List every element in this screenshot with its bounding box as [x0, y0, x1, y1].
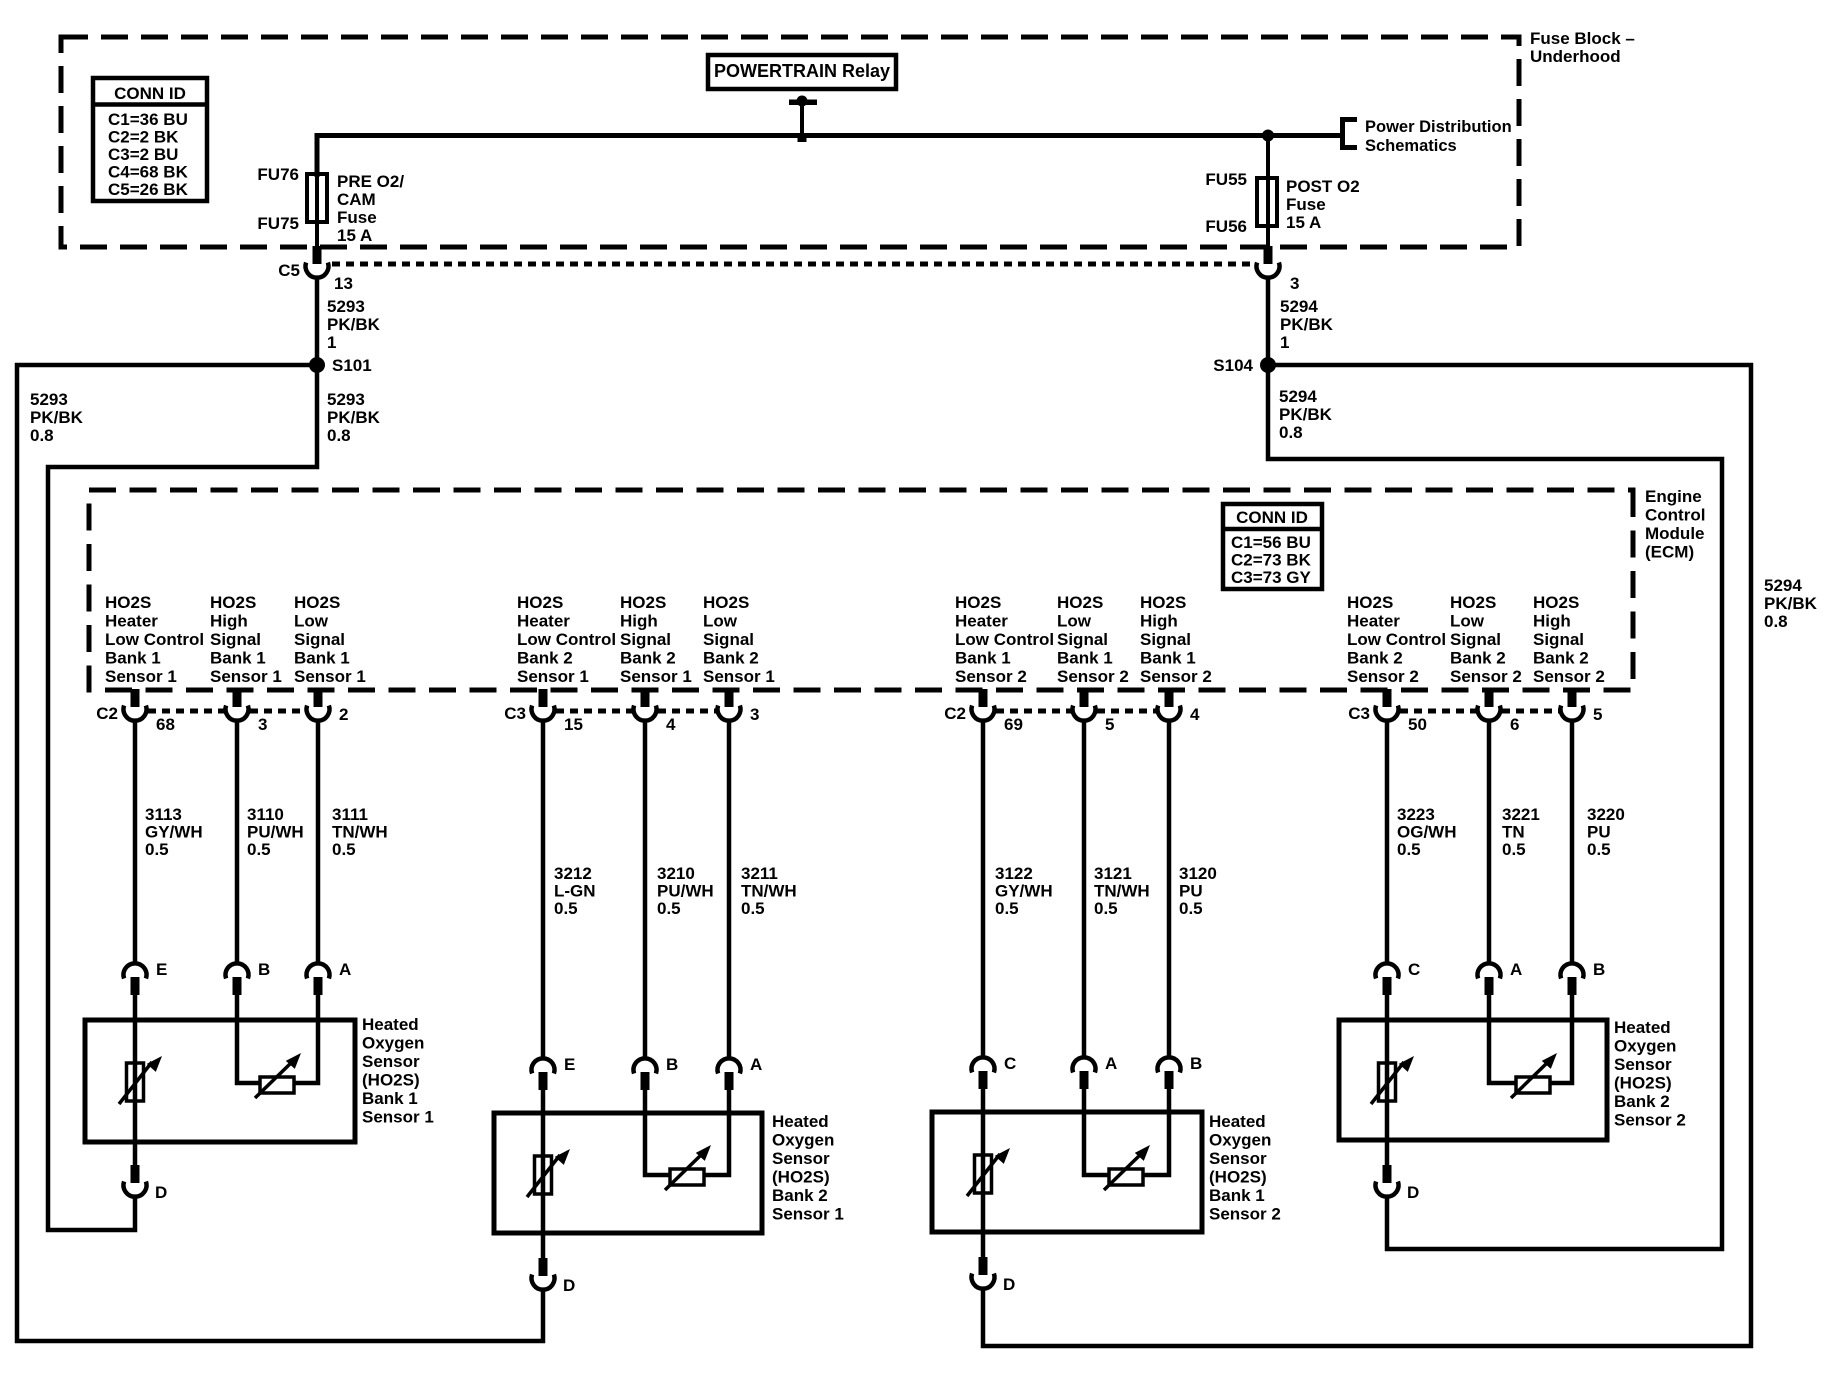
svg-text:0.8: 0.8	[30, 426, 54, 445]
svg-text:C2: C2	[944, 704, 966, 723]
svg-text:HO2S: HO2S	[1533, 593, 1579, 612]
svg-text:Heated: Heated	[772, 1112, 829, 1131]
svg-text:3221: 3221	[1502, 805, 1540, 824]
svg-text:OG/WH: OG/WH	[1397, 823, 1457, 842]
svg-text:Sensor 2: Sensor 2	[955, 667, 1027, 686]
sensor connector pins E/B/A (Bank 2 Sensor 1)	[532, 1055, 763, 1090]
Fuse Block - Underhood label	[1530, 29, 1635, 66]
svg-text:Signal: Signal	[1057, 630, 1108, 649]
Power Distribution Schematics label	[1365, 118, 1512, 155]
fuse FU76/FU75 PRE O2/CAM 15A	[307, 174, 327, 222]
svg-text:B: B	[1190, 1054, 1202, 1073]
svg-text:Signal: Signal	[620, 630, 671, 649]
wire 5294 PK/BK 0.8 (right outer, S104 to HO2S B1S2 pin D)	[983, 365, 1818, 1346]
sensing element (variable resistor)	[665, 1145, 711, 1190]
svg-text:Signal: Signal	[1533, 630, 1584, 649]
ECM connector C3 pins 50,6,5	[1348, 689, 1602, 734]
svg-text:High: High	[1140, 612, 1178, 631]
POWERTRAIN Relay box	[708, 55, 896, 89]
ECM pin function label 11: Low Signal Bank 2 Sensor 2	[1450, 593, 1522, 686]
svg-text:Signal: Signal	[1450, 630, 1501, 649]
svg-text:Bank 2: Bank 2	[1533, 649, 1589, 668]
wire 3210 PU/WH 0.5	[645, 721, 714, 1058]
svg-text:69: 69	[1004, 715, 1023, 734]
svg-text:3220: 3220	[1587, 805, 1625, 824]
svg-text:HO2S: HO2S	[1347, 593, 1393, 612]
sensor label Bank 1 Sensor 2	[1209, 1112, 1281, 1224]
svg-text:Signal: Signal	[1140, 630, 1191, 649]
ECM pin function label 9: High Signal Bank 1 Sensor 2	[1140, 593, 1212, 686]
svg-text:6: 6	[1510, 715, 1519, 734]
svg-text:High: High	[210, 612, 248, 631]
wire 3223 OG/WH 0.5	[1387, 721, 1457, 963]
svg-text:D: D	[155, 1183, 167, 1202]
svg-text:HO2S: HO2S	[620, 593, 666, 612]
dotted connector line (top)	[332, 262, 1254, 267]
wire 5293 PK/BK 1	[317, 277, 381, 365]
svg-text:0.5: 0.5	[1094, 899, 1118, 918]
svg-text:C3: C3	[1348, 704, 1370, 723]
svg-text:C3=73 GY: C3=73 GY	[1231, 568, 1312, 587]
ECM connector C2 pins 68,3,2	[96, 689, 348, 734]
svg-text:Oxygen: Oxygen	[362, 1034, 424, 1053]
svg-text:Bank 1: Bank 1	[210, 649, 266, 668]
svg-text:Sensor 1: Sensor 1	[105, 667, 177, 686]
svg-text:Sensor: Sensor	[1209, 1149, 1267, 1168]
svg-text:5293: 5293	[327, 390, 365, 409]
svg-text:TN/WH: TN/WH	[1094, 882, 1150, 901]
wire: bus from fuse1 corner to bracket	[317, 136, 1340, 178]
connector pin D	[124, 1165, 168, 1202]
svg-text:B: B	[1593, 960, 1605, 979]
svg-text:PRE O2/: PRE O2/	[337, 172, 404, 191]
Heated Oxygen Sensor box (Bank 1 Sensor 2)	[932, 1112, 1202, 1232]
ECM pin function label 4: Heater Low Control Bank 2 Sensor 1	[517, 593, 616, 686]
svg-text:Sensor 1: Sensor 1	[620, 667, 692, 686]
dotted connector line (C3 group)	[1400, 709, 1559, 714]
svg-text:Low Control: Low Control	[955, 630, 1054, 649]
svg-text:Oxygen: Oxygen	[772, 1131, 834, 1150]
splice S104	[1213, 356, 1276, 375]
svg-text:FU55: FU55	[1205, 170, 1247, 189]
svg-text:3122: 3122	[995, 864, 1033, 883]
svg-text:HO2S: HO2S	[210, 593, 256, 612]
Heated Oxygen Sensor box (Bank 2 Sensor 2)	[1339, 1020, 1607, 1140]
sensing element wires	[645, 1113, 729, 1175]
sensing element (variable resistor)	[255, 1053, 301, 1098]
svg-text:4: 4	[1190, 705, 1200, 724]
svg-text:5294: 5294	[1280, 297, 1318, 316]
svg-text:Bank 2: Bank 2	[703, 649, 759, 668]
svg-text:3211: 3211	[741, 864, 778, 883]
svg-text:C5: C5	[278, 261, 300, 280]
svg-text:C3=2 BU: C3=2 BU	[108, 145, 178, 164]
svg-text:5293: 5293	[30, 390, 68, 409]
svg-text:POWERTRAIN Relay: POWERTRAIN Relay	[714, 61, 890, 81]
connector pin D	[972, 1257, 1016, 1294]
svg-text:(HO2S): (HO2S)	[772, 1168, 830, 1187]
svg-text:(HO2S): (HO2S)	[1209, 1168, 1267, 1187]
fuse FU55/FU56 labels	[1205, 170, 1359, 236]
svg-text:0.5: 0.5	[995, 899, 1019, 918]
svg-text:Sensor: Sensor	[1614, 1055, 1672, 1074]
svg-text:(HO2S): (HO2S)	[1614, 1074, 1672, 1093]
svg-text:Heated: Heated	[362, 1015, 419, 1034]
Heated Oxygen Sensor box (Bank 1 Sensor 1)	[85, 1020, 355, 1142]
svg-text:HO2S: HO2S	[1450, 593, 1496, 612]
svg-text:A: A	[1105, 1054, 1117, 1073]
svg-text:CONN ID: CONN ID	[1236, 508, 1308, 527]
wire 5293 PK/BK 0.8 (left outer, S101 to HO2S B2S1 pin D)	[17, 365, 543, 1341]
sensing element (variable resistor)	[1511, 1053, 1557, 1098]
svg-text:3212: 3212	[554, 864, 592, 883]
svg-text:0.8: 0.8	[327, 426, 351, 445]
svg-text:3120: 3120	[1179, 864, 1217, 883]
heater element wire	[133, 1020, 138, 1167]
sensing element (variable resistor)	[1104, 1145, 1150, 1190]
heater element wire	[1385, 1020, 1390, 1167]
heater element (variable resistor)	[119, 1056, 162, 1104]
sensor connector pins C/A/B (Bank 1 Sensor 2)	[972, 1054, 1203, 1089]
wire 3220 PU 0.5	[1572, 721, 1625, 963]
svg-text:4: 4	[666, 715, 676, 734]
svg-text:Low: Low	[1057, 612, 1092, 631]
svg-text:Heater: Heater	[105, 612, 158, 631]
svg-text:FU76: FU76	[257, 165, 299, 184]
svg-text:3210: 3210	[657, 864, 695, 883]
wire 5293 PK/BK 0.8 (S101 branch to HO2S B1S1 pin D)	[48, 365, 381, 1230]
svg-text:Sensor 2: Sensor 2	[1533, 667, 1605, 686]
svg-text:Bank 2: Bank 2	[620, 649, 676, 668]
connector pin D	[1376, 1165, 1420, 1202]
svg-text:FU56: FU56	[1205, 217, 1247, 236]
wire 3212 L-GN 0.5	[543, 721, 596, 1058]
svg-text:5293: 5293	[327, 297, 365, 316]
svg-text:5: 5	[1593, 705, 1602, 724]
sensor connector pins C/A/B (Bank 2 Sensor 2)	[1376, 960, 1606, 995]
svg-text:PU/WH: PU/WH	[247, 823, 304, 842]
svg-text:Sensor 1: Sensor 1	[703, 667, 775, 686]
svg-text:Low Control: Low Control	[517, 630, 616, 649]
wire 5294 PK/BK 0.8 (S104 branch to HO2S B2S2 pin D)	[1268, 365, 1722, 1249]
svg-text:GY/WH: GY/WH	[995, 882, 1053, 901]
svg-text:0.5: 0.5	[1502, 840, 1526, 859]
svg-text:High: High	[620, 612, 658, 631]
svg-text:HO2S: HO2S	[703, 593, 749, 612]
svg-text:Heater: Heater	[517, 612, 570, 631]
sensing element wires	[1489, 1020, 1572, 1083]
sensor label Bank 2 Sensor 1	[772, 1112, 844, 1224]
svg-text:Power Distribution: Power Distribution	[1365, 118, 1512, 136]
svg-text:Bank 1: Bank 1	[1057, 649, 1113, 668]
svg-text:Control: Control	[1645, 506, 1705, 525]
relay coil terminal	[789, 96, 817, 143]
wire 3113 GY/WH 0.5	[135, 721, 203, 963]
svg-text:Sensor: Sensor	[772, 1149, 830, 1168]
svg-text:Bank 2: Bank 2	[1450, 649, 1506, 668]
wire 3110 PU/WH 0.5	[237, 721, 304, 963]
svg-text:15 A: 15 A	[337, 226, 372, 245]
svg-text:S104: S104	[1213, 356, 1253, 375]
svg-text:15: 15	[564, 715, 583, 734]
ECM connector C2 pins 69,5,4	[944, 689, 1200, 734]
svg-text:B: B	[258, 960, 270, 979]
ECM pin function label 1: Heater Low Control Bank 1 Sensor 1	[105, 593, 204, 686]
svg-text:Sensor 1: Sensor 1	[517, 667, 589, 686]
svg-text:2: 2	[339, 705, 348, 724]
wire: fuse FU55 feed drop	[1266, 135, 1270, 250]
svg-text:68: 68	[156, 715, 175, 734]
svg-text:TN/WH: TN/WH	[741, 882, 797, 901]
splice S101	[309, 356, 372, 375]
svg-text:CAM: CAM	[337, 190, 376, 209]
wires into sensor box	[543, 1089, 729, 1113]
svg-text:3110: 3110	[247, 805, 284, 824]
svg-text:13: 13	[334, 274, 353, 293]
svg-text:Signal: Signal	[703, 630, 754, 649]
svg-text:Bank 1: Bank 1	[1209, 1186, 1265, 1205]
svg-text:0.5: 0.5	[1397, 840, 1421, 859]
svg-text:Heater: Heater	[1347, 612, 1400, 631]
svg-text:Sensor 2: Sensor 2	[1057, 667, 1129, 686]
svg-text:S101: S101	[332, 356, 372, 375]
CONN ID table (ECM)	[1223, 504, 1322, 589]
svg-text:1: 1	[327, 333, 336, 352]
svg-text:Low: Low	[1450, 612, 1485, 631]
svg-text:PK/BK: PK/BK	[327, 408, 381, 427]
svg-text:Underhood: Underhood	[1530, 47, 1621, 66]
svg-text:Heated: Heated	[1614, 1018, 1671, 1037]
svg-text:PU: PU	[1179, 882, 1203, 901]
wire 3120 PU 0.5	[1169, 721, 1217, 1058]
sensor label Bank 1 Sensor 1	[362, 1015, 434, 1127]
svg-text:PU/WH: PU/WH	[657, 882, 714, 901]
dotted connector line (C2 group)	[996, 709, 1156, 714]
svg-text:D: D	[1407, 1183, 1419, 1202]
svg-text:Module: Module	[1645, 524, 1705, 543]
svg-text:Sensor 1: Sensor 1	[772, 1205, 844, 1224]
svg-text:3: 3	[1290, 274, 1299, 293]
svg-text:Bank 1: Bank 1	[1140, 649, 1196, 668]
svg-text:B: B	[666, 1055, 678, 1074]
svg-text:3121: 3121	[1094, 864, 1132, 883]
svg-text:PK/BK: PK/BK	[1764, 594, 1818, 613]
svg-text:Sensor 2: Sensor 2	[1614, 1111, 1686, 1130]
svg-text:Oxygen: Oxygen	[1209, 1131, 1271, 1150]
svg-text:PK/BK: PK/BK	[30, 408, 84, 427]
Engine Control Module label	[1645, 487, 1705, 562]
wires into sensor box	[1387, 994, 1572, 1020]
heater element (variable resistor)	[967, 1148, 1010, 1196]
heater element (variable resistor)	[1371, 1056, 1414, 1104]
ECM pin function label 8: Low Signal Bank 1 Sensor 2	[1057, 593, 1129, 686]
svg-text:E: E	[156, 960, 167, 979]
svg-text:Bank 1: Bank 1	[105, 649, 161, 668]
ECM pin function label 2: High Signal Bank 1 Sensor 1	[210, 593, 282, 686]
svg-text:POST O2: POST O2	[1286, 177, 1360, 196]
svg-text:Sensor 1: Sensor 1	[362, 1108, 434, 1127]
svg-text:Low: Low	[703, 612, 738, 631]
svg-text:PK/BK: PK/BK	[1280, 315, 1334, 334]
svg-text:Sensor: Sensor	[362, 1052, 420, 1071]
svg-text:C3: C3	[504, 704, 526, 723]
svg-text:C1=36 BU: C1=36 BU	[108, 110, 188, 129]
svg-text:C2: C2	[96, 704, 118, 723]
heater element (variable resistor)	[527, 1149, 570, 1197]
svg-text:0.5: 0.5	[332, 840, 356, 859]
svg-text:HO2S: HO2S	[105, 593, 151, 612]
sensor connector pins E/B/A (Bank 1 Sensor 1)	[124, 960, 352, 995]
svg-text:CONN ID: CONN ID	[114, 84, 186, 103]
svg-text:HO2S: HO2S	[1140, 593, 1186, 612]
svg-text:5: 5	[1105, 715, 1114, 734]
heater element wire	[981, 1112, 986, 1259]
svg-text:1: 1	[1280, 333, 1289, 352]
svg-text:Oxygen: Oxygen	[1614, 1037, 1676, 1056]
connector C5 pin 13	[278, 246, 353, 293]
svg-text:Bank 2: Bank 2	[1614, 1092, 1670, 1111]
svg-text:Fuse: Fuse	[1286, 195, 1326, 214]
svg-text:L-GN: L-GN	[554, 882, 596, 901]
svg-text:Schematics: Schematics	[1365, 137, 1457, 155]
connector pin D	[532, 1258, 576, 1295]
svg-text:(ECM): (ECM)	[1645, 543, 1694, 562]
svg-text:C: C	[1408, 960, 1420, 979]
Power Distribution Schematics bracket	[1343, 120, 1358, 148]
svg-text:Low: Low	[294, 612, 329, 631]
heater element wire	[541, 1113, 546, 1260]
sensor label Bank 2 Sensor 2	[1614, 1018, 1686, 1130]
sensing element wires	[237, 1020, 318, 1083]
svg-text:Bank 1: Bank 1	[362, 1089, 418, 1108]
svg-text:A: A	[750, 1055, 762, 1074]
Engine Control Module dashed box	[89, 490, 1633, 690]
svg-text:0.5: 0.5	[741, 899, 765, 918]
wire 3211 TN/WH 0.5	[729, 721, 797, 1058]
svg-text:C5=26 BK: C5=26 BK	[108, 180, 189, 199]
wire 5294 PK/BK 1	[1268, 277, 1334, 365]
junction dot at FU55 feed	[1262, 130, 1274, 142]
wire 3121 TN/WH 0.5	[1084, 721, 1150, 1058]
svg-text:3111: 3111	[332, 805, 368, 824]
svg-text:Sensor 2: Sensor 2	[1347, 667, 1419, 686]
svg-text:5294: 5294	[1279, 387, 1317, 406]
svg-text:3223: 3223	[1397, 805, 1435, 824]
ECM pin function label 3: Low Signal Bank 1 Sensor 1	[294, 593, 366, 686]
svg-text:D: D	[1003, 1275, 1015, 1294]
dotted connector line (C3 group)	[556, 709, 716, 714]
svg-text:0.5: 0.5	[1179, 899, 1203, 918]
svg-text:Bank 2: Bank 2	[772, 1186, 828, 1205]
svg-text:Heater: Heater	[955, 612, 1008, 631]
svg-text:High: High	[1533, 612, 1571, 631]
svg-text:Sensor 2: Sensor 2	[1209, 1205, 1281, 1224]
svg-text:C2=73 BK: C2=73 BK	[1231, 551, 1312, 570]
svg-text:Signal: Signal	[210, 630, 261, 649]
wire: relay coil drop	[800, 103, 804, 136]
svg-text:3: 3	[258, 715, 267, 734]
svg-text:A: A	[1510, 960, 1522, 979]
svg-text:Signal: Signal	[294, 630, 345, 649]
svg-text:PK/BK: PK/BK	[1279, 405, 1333, 424]
svg-text:Bank 2: Bank 2	[517, 649, 573, 668]
svg-text:A: A	[339, 960, 351, 979]
svg-text:TN: TN	[1502, 823, 1525, 842]
svg-text:Engine: Engine	[1645, 487, 1702, 506]
svg-text:TN/WH: TN/WH	[332, 823, 388, 842]
svg-text:C4=68 BK: C4=68 BK	[108, 163, 189, 182]
svg-text:Heated: Heated	[1209, 1112, 1266, 1131]
svg-text:HO2S: HO2S	[955, 593, 1001, 612]
svg-text:HO2S: HO2S	[517, 593, 563, 612]
svg-text:0.5: 0.5	[247, 840, 271, 859]
svg-text:50: 50	[1408, 715, 1427, 734]
wire 3111 TN/WH 0.5	[318, 721, 388, 963]
ECM connector C3 pins 15,4,3	[504, 689, 759, 734]
svg-text:Sensor 2: Sensor 2	[1450, 667, 1522, 686]
wire: fuse FU76 feed through	[315, 174, 319, 250]
svg-text:HO2S: HO2S	[294, 593, 340, 612]
svg-text:FU75: FU75	[257, 214, 299, 233]
wire 3221 TN 0.5	[1489, 721, 1540, 963]
svg-text:Low Control: Low Control	[105, 630, 204, 649]
dotted connector line (C2 group)	[148, 709, 305, 714]
svg-text:0.5: 0.5	[657, 899, 681, 918]
svg-text:0.5: 0.5	[1587, 840, 1611, 859]
wire 3122 GY/WH 0.5	[983, 721, 1053, 1058]
svg-text:D: D	[563, 1276, 575, 1295]
ECM pin function label 6: Low Signal Bank 2 Sensor 1	[703, 593, 775, 686]
svg-text:15 A: 15 A	[1286, 213, 1321, 232]
sensing element wires	[1084, 1112, 1169, 1175]
ECM pin function label 12: High Signal Bank 2 Sensor 2	[1533, 593, 1605, 686]
Heated Oxygen Sensor box (Bank 2 Sensor 1)	[494, 1113, 762, 1233]
ECM pin function label 10: Heater Low Control Bank 2 Sensor 2	[1347, 593, 1446, 686]
svg-text:3113: 3113	[145, 805, 182, 824]
svg-text:HO2S: HO2S	[1057, 593, 1103, 612]
ECM pin function label 5: High Signal Bank 2 Sensor 1	[620, 593, 692, 686]
svg-text:Fuse Block –: Fuse Block –	[1530, 29, 1635, 48]
wires into sensor box	[983, 1088, 1169, 1112]
svg-text:C: C	[1004, 1054, 1016, 1073]
svg-text:0.5: 0.5	[554, 899, 578, 918]
fuse FU55/FU56 POST O2 15A	[1257, 178, 1277, 226]
svg-text:GY/WH: GY/WH	[145, 823, 203, 842]
svg-text:Bank 1: Bank 1	[294, 649, 350, 668]
svg-text:Fuse: Fuse	[337, 208, 377, 227]
connector pin 3 (right)	[1257, 246, 1300, 293]
svg-text:Low Control: Low Control	[1347, 630, 1446, 649]
svg-text:Sensor 2: Sensor 2	[1140, 667, 1212, 686]
svg-text:C1=56 BU: C1=56 BU	[1231, 533, 1311, 552]
svg-text:Bank 2: Bank 2	[1347, 649, 1403, 668]
svg-text:0.5: 0.5	[145, 840, 169, 859]
fuse FU76/FU75 labels	[257, 165, 404, 245]
svg-text:3: 3	[750, 705, 759, 724]
svg-text:Sensor 1: Sensor 1	[294, 667, 366, 686]
svg-text:0.8: 0.8	[1764, 612, 1788, 631]
wires into sensor box	[135, 994, 318, 1020]
svg-text:C2=2 BK: C2=2 BK	[108, 128, 179, 147]
svg-text:E: E	[564, 1055, 575, 1074]
svg-text:Sensor 1: Sensor 1	[210, 667, 282, 686]
Fuse Block - Underhood dashed box	[61, 37, 1519, 247]
svg-text:Bank 1: Bank 1	[955, 649, 1011, 668]
svg-text:5294: 5294	[1764, 576, 1802, 595]
svg-text:(HO2S): (HO2S)	[362, 1071, 420, 1090]
CONN ID table (Fuse Block)	[93, 78, 207, 201]
ECM pin function label 7: Heater Low Control Bank 1 Sensor 2	[955, 593, 1054, 686]
